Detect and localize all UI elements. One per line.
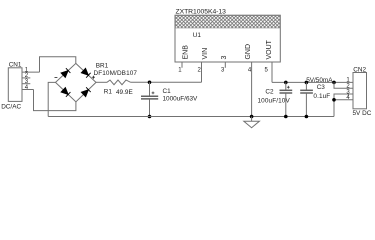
- capacitor C3 plates: [300, 89, 313, 91]
- connector CN2 box: [353, 73, 367, 109]
- svg-text:5V DC: 5V DC: [353, 110, 372, 117]
- 5V output rail wire: [272, 81, 353, 83]
- BR1 minus mark: [55, 76, 58, 78]
- wire U1 pin2 VIN down to input rail: [201, 62, 203, 82]
- U1 hatched band: [176, 16, 280, 28]
- svg-text:DC/AC: DC/AC: [1, 104, 21, 111]
- wire bridge left corner to ground rail: [48, 82, 55, 116]
- ground rail wire: [48, 116, 334, 118]
- svg-text:C2: C2: [265, 88, 274, 95]
- svg-text:VOUT: VOUT: [266, 39, 273, 59]
- bridge rectifier BR1 diamond: [56, 63, 97, 101]
- ground symbol: [244, 117, 260, 128]
- svg-text:C3: C3: [317, 84, 326, 91]
- CN1 pin 1 stub: [22, 71, 40, 73]
- svg-text:BR1: BR1: [96, 62, 109, 69]
- node junction C2 top: [284, 81, 288, 85]
- resistor R1 zigzag: [107, 80, 131, 85]
- capacitor C1 bottom lead: [149, 99, 151, 116]
- U1 pin 3 stub: [224, 62, 226, 68]
- wire CN1 pin4 to bridge bottom (AC): [34, 90, 76, 111]
- svg-text:1000uF/63V: 1000uF/63V: [163, 95, 199, 102]
- capacitor C3 bottom lead: [305, 93, 307, 116]
- BR1 diode D-bottomleft (L to B): [61, 88, 70, 97]
- capacitor C2 top lead: [285, 82, 287, 90]
- CN1 pin 2 stub: [22, 77, 30, 79]
- C1 plus mark: [152, 92, 155, 95]
- node junction GND pin / ground symbol: [250, 115, 254, 119]
- CN1 pin 4 stub: [22, 89, 34, 91]
- wire U1 pin5 VOUT down to 5V rail: [271, 62, 273, 82]
- svg-text:49.9E: 49.9E: [116, 89, 133, 96]
- wire CN2 pin2 branch: [334, 82, 353, 88]
- svg-text:0.1uF: 0.1uF: [313, 93, 330, 100]
- wire CN2 pin4 stub: [334, 99, 353, 101]
- svg-text:100uF/10V: 100uF/10V: [258, 98, 291, 105]
- node junction C3 bottom: [305, 115, 309, 119]
- connector CN1 box: [8, 68, 22, 102]
- wire CN2 pin3/pin4 to ground rail: [334, 94, 353, 117]
- svg-text:DF10M/DB107: DF10M/DB107: [94, 70, 138, 77]
- CN1 pin 3 stub: [22, 83, 30, 85]
- capacitor C3 top lead: [305, 82, 307, 90]
- wire R1 to VIN rail: [131, 81, 202, 83]
- capacitor C1 top lead: [149, 82, 151, 96]
- capacitor C2 bottom lead: [285, 93, 287, 116]
- svg-text:3: 3: [221, 56, 228, 60]
- svg-text:ZXTR1005K4-13: ZXTR1005K4-13: [176, 9, 227, 16]
- U1 pin 1 stub: [181, 62, 183, 68]
- svg-text:GND: GND: [245, 44, 252, 60]
- BR1 plus mark: [92, 76, 95, 79]
- node junction CN2 pin4: [332, 98, 336, 102]
- node junction C1 bottom on ground rail: [148, 115, 152, 119]
- svg-text:ENB: ENB: [183, 45, 190, 60]
- C2 plus mark: [287, 86, 290, 89]
- node junction CN2 branch: [332, 81, 336, 85]
- node junction C2 bottom: [284, 115, 288, 119]
- node junction C3 top: [305, 81, 309, 85]
- node junction C1 top: [148, 81, 152, 85]
- svg-text:C1: C1: [163, 88, 172, 95]
- BR1 diode D-topright (T to R): [81, 68, 90, 77]
- BR1 diode D-topleft (L to T): [61, 68, 70, 77]
- BR1 diode D-bottomright (B to R): [81, 87, 90, 96]
- wire CN1 pin1 to bridge top (AC): [40, 57, 76, 72]
- capacitor C1 plates: [141, 95, 158, 97]
- svg-text:VIN: VIN: [202, 48, 209, 60]
- svg-text:R1: R1: [104, 88, 113, 95]
- op-amp U1 box: [175, 15, 280, 62]
- wire U1 pin4 GND down to ground rail: [251, 62, 253, 117]
- capacitor C2 plates: [280, 89, 293, 91]
- wire bridge right corner to R1: [96, 81, 107, 83]
- svg-text:U1: U1: [193, 32, 202, 39]
